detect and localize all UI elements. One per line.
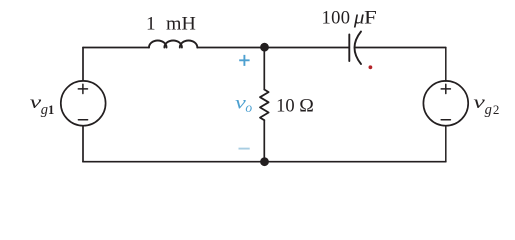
wire left vertical lower xyxy=(82,126,84,162)
blue minus label xyxy=(239,148,250,150)
wire middle branch lower xyxy=(263,120,265,162)
wire left vertical upper xyxy=(82,48,84,81)
wire top rail left segment xyxy=(83,47,149,49)
wire top rail right segment xyxy=(355,47,446,49)
voltage source vg2 circle xyxy=(423,81,468,126)
minus sign inside vg1 xyxy=(78,119,87,121)
node junction dot bottom xyxy=(260,157,269,166)
svg-text:o: o xyxy=(245,100,252,115)
svg-text:g2: g2 xyxy=(485,102,500,118)
red dot marker xyxy=(369,65,373,69)
svg-text:100: 100 xyxy=(322,8,351,28)
plus sign inside vg1 xyxy=(78,84,87,93)
resistor R1 10 ohm zigzag xyxy=(260,90,269,121)
svg-text:v: v xyxy=(30,92,42,112)
inductor L1 1 mH xyxy=(149,41,197,48)
wire right vertical upper xyxy=(445,48,447,82)
voltage source vg1 circle xyxy=(61,81,106,126)
svg-text:F: F xyxy=(364,8,377,28)
capacitor C1 100 uF left plate xyxy=(348,35,350,62)
wire top rail middle segment xyxy=(197,47,349,49)
wire middle branch upper xyxy=(263,48,265,90)
svg-text:v: v xyxy=(473,92,485,112)
node junction dot top xyxy=(260,43,269,52)
blue plus label xyxy=(239,55,249,66)
capacitor C1 curved right plate xyxy=(355,32,362,65)
svg-text:Ω: Ω xyxy=(299,97,314,117)
plus sign inside vg2 xyxy=(441,84,450,93)
svg-text:1: 1 xyxy=(146,15,156,35)
svg-text:10: 10 xyxy=(276,97,295,117)
wire bottom rail xyxy=(83,161,446,163)
wire right vertical lower xyxy=(445,126,447,162)
svg-text:mH: mH xyxy=(166,15,196,35)
svg-text:g1: g1 xyxy=(41,102,55,118)
svg-text:μ: μ xyxy=(353,8,365,28)
minus sign inside vg2 xyxy=(441,119,450,121)
